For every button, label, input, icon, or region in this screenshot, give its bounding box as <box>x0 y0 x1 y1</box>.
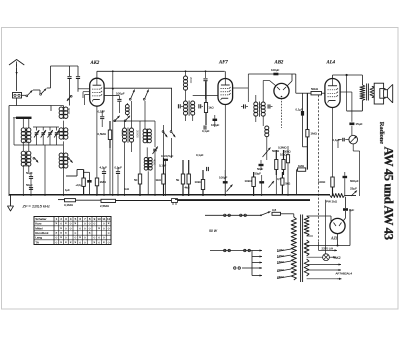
wire L6 down <box>63 141 65 153</box>
svg-text:×: × <box>60 226 62 230</box>
svg-text:○: ○ <box>79 226 81 230</box>
svg-text:Lang: Lang <box>35 236 42 240</box>
svg-text:×: × <box>55 222 57 226</box>
wire x346 down <box>346 75 348 111</box>
tube AF7 pentode <box>218 79 233 105</box>
wire core to coils <box>23 119 29 128</box>
svg-text:○: ○ <box>84 240 86 244</box>
dial lamp <box>323 254 330 261</box>
wire under C9 <box>165 161 167 196</box>
IF coil L13 L14 pair <box>184 101 195 116</box>
svg-text:○: ○ <box>55 236 57 240</box>
dial lamp label <box>322 247 334 251</box>
wire bus B2 <box>175 199 310 201</box>
capacitor C9 flat <box>163 159 168 161</box>
wire AF7 grid left <box>193 95 218 97</box>
svg-text:○: ○ <box>55 240 57 244</box>
svg-text:○: ○ <box>74 236 76 240</box>
antenna coil L3 L4 pair <box>21 151 31 167</box>
capacitor C18 <box>241 104 248 108</box>
wire IF2 leads <box>256 115 263 126</box>
svg-text:AZ1: AZ1 <box>330 236 338 241</box>
capacitor C25 block on x302 <box>301 111 304 116</box>
trimmer capacitor T4 <box>54 127 59 145</box>
svg-text:0,5: 0,5 <box>277 177 281 181</box>
label R7R8 <box>278 146 287 150</box>
trimmer capacitor T2 <box>41 127 46 145</box>
capacitor C23 <box>207 165 209 174</box>
svg-text:240V: 240V <box>277 275 284 279</box>
svg-text:0,1µF: 0,1µF <box>115 165 123 169</box>
wire node bus left <box>9 106 51 197</box>
wire AZ1 bottom lead <box>337 234 339 246</box>
wire trimmer top rail <box>33 126 59 128</box>
wire L9 leads <box>131 101 133 152</box>
svg-text:○: ○ <box>98 236 100 240</box>
svg-text:○: ○ <box>84 236 86 240</box>
label R9 <box>245 179 253 183</box>
padder trimmer C10 <box>153 121 158 196</box>
trimmer capacitor T1 <box>34 127 39 145</box>
label C27 15uF <box>356 122 363 126</box>
svg-text:110V: 110V <box>277 248 284 252</box>
selector tap arrows <box>252 249 262 263</box>
power transformer heater winding 1 <box>304 240 309 256</box>
label row mid <box>161 154 174 158</box>
svg-text:6000: 6000 <box>121 130 125 137</box>
wire HT mid <box>307 235 313 237</box>
resistor R3 <box>181 160 184 196</box>
wire lamp line <box>307 256 336 258</box>
svg-text:AB2: AB2 <box>274 60 284 65</box>
svg-text:0,1/0,5µF: 0,1/0,5µF <box>161 154 174 158</box>
label coil 1000 vertical <box>67 108 71 115</box>
capacitor C5 AK2 grid <box>67 77 71 79</box>
oscillator coil L6 pair <box>59 127 68 139</box>
wire AK2 cathode down <box>96 106 98 196</box>
svg-text:20000: 20000 <box>136 130 140 138</box>
wire grid stop line <box>296 92 311 94</box>
heater arrows row4 <box>307 278 342 280</box>
label C16 100pF <box>211 123 219 127</box>
connector on bus line <box>172 199 178 205</box>
wire AL4 cathode down <box>332 108 334 178</box>
svg-text:50µF: 50µF <box>255 172 262 176</box>
wire AB2 area drops <box>275 170 277 195</box>
tube AK2 octode <box>90 78 104 106</box>
svg-text:AF7AB2AL4: AF7AB2AL4 <box>336 272 353 276</box>
svg-text:15µF: 15µF <box>356 122 363 126</box>
svg-text:0,1µF: 0,1µF <box>296 108 303 112</box>
svg-text:×: × <box>74 222 76 226</box>
svg-text:12: 12 <box>107 217 111 221</box>
svg-text:○: ○ <box>65 226 67 230</box>
tube AL4 pentode <box>325 79 340 108</box>
coil L10 padding pair <box>143 129 151 144</box>
heater stub arrow <box>319 249 338 251</box>
svg-text:0,1µF: 0,1µF <box>159 164 166 168</box>
capacitor C20 100pF block <box>273 73 278 76</box>
antenna coil core bar <box>13 117 32 119</box>
label ZF 128.5 kHz <box>22 204 50 209</box>
resistor R23 <box>281 172 284 195</box>
wire right verticals <box>319 95 326 257</box>
resistor R10 <box>201 170 204 196</box>
svg-text:0,1µF: 0,1µF <box>98 110 106 114</box>
svg-text:AK2: AK2 <box>335 256 341 260</box>
label coil 2000 vertical <box>189 77 193 84</box>
svg-text:220V: 220V <box>277 268 284 272</box>
svg-text:ZF = 128,5 kHz: ZF = 128,5 kHz <box>22 204 50 209</box>
potentiometer P4 tone <box>349 135 358 144</box>
switch S6b band <box>124 116 130 122</box>
wire grid top rail AK2 <box>51 66 79 76</box>
switch blade S7b <box>143 90 148 101</box>
label R3 <box>176 178 180 182</box>
oscillator coil L5 pair <box>59 106 68 119</box>
resistor R22 0.5MOhm <box>108 121 111 195</box>
title AW 45 und AW 43 rotated <box>382 147 396 240</box>
speaker cone <box>384 84 393 102</box>
selector tap arrows lower <box>242 267 262 277</box>
label R13 100Ohm <box>318 180 326 184</box>
heater arrows row3 <box>307 269 341 271</box>
power transformer heater winding 2 <box>304 259 309 276</box>
capacitor C15 <box>203 71 207 99</box>
rectifier tube AZ1 <box>330 218 345 233</box>
svg-text:10: 10 <box>98 217 102 221</box>
tube AB2 duodiode <box>274 83 289 98</box>
wire C6 down <box>77 79 79 92</box>
resistor R2 <box>162 158 165 196</box>
capacitor C22 block <box>259 175 264 196</box>
wire L17 down <box>266 136 268 146</box>
resistor R16 0.1M <box>82 170 85 195</box>
capacitor C24 block <box>223 170 228 196</box>
wire HT top to AZ1 <box>307 216 331 221</box>
tap lines lower <box>277 269 291 279</box>
label 0.5uF <box>277 177 281 181</box>
wire AL4 top to rail <box>333 75 363 79</box>
label PW 2kOhm <box>326 200 338 204</box>
IF coil L12 <box>184 70 188 90</box>
svg-text:1kΩ: 1kΩ <box>156 178 162 182</box>
label 110V <box>277 248 284 252</box>
mains connector pair 3 <box>224 249 231 251</box>
label R10 <box>195 180 203 184</box>
svg-text:50kΩ: 50kΩ <box>284 149 291 153</box>
wire coils to ground bus <box>23 165 29 196</box>
label AF7 <box>218 60 228 65</box>
svg-text:×: × <box>108 222 110 226</box>
svg-text:○: ○ <box>89 226 91 230</box>
svg-text:×: × <box>65 240 67 244</box>
label 100uF C7 <box>116 91 125 95</box>
HT rail y71 <box>97 70 225 72</box>
svg-text:100Ω: 100Ω <box>318 180 326 184</box>
svg-text:50: 50 <box>134 178 138 182</box>
wire x352 chain <box>351 111 353 122</box>
wire S2 up to junction <box>47 66 51 88</box>
ground bus right zigzag PW 2kOhm <box>330 194 356 198</box>
wire AK2 top to HT rail <box>96 71 98 78</box>
svg-text:0,8: 0,8 <box>272 208 277 212</box>
resistor R21 1MOhm horizontal <box>297 168 306 195</box>
svg-text:Rundfunk: Rundfunk <box>35 231 49 235</box>
svg-text:×: × <box>55 231 57 235</box>
svg-text:AL4: AL4 <box>326 60 336 65</box>
svg-text:2000: 2000 <box>189 77 193 84</box>
svg-text:4kΩ: 4kΩ <box>185 186 190 190</box>
wire L10 <box>145 101 147 158</box>
wire AF7 rail junction dot <box>112 70 114 72</box>
ground arrow left <box>8 195 14 211</box>
wire AF7 top <box>205 70 226 78</box>
label C29 600uF <box>350 179 359 183</box>
svg-text:Radione: Radione <box>378 122 385 144</box>
label R5 <box>100 180 107 184</box>
antenna coil L1 L2 pair <box>21 127 31 143</box>
svg-text:×: × <box>60 231 62 235</box>
ground bus <box>9 194 330 196</box>
wire OT primary top <box>361 75 363 85</box>
label R21 1M <box>298 164 304 168</box>
label 0.1uF C8 <box>98 110 106 114</box>
svg-text:×: × <box>60 236 62 240</box>
wire step corner <box>66 170 84 177</box>
capacitor C29 block <box>343 172 348 196</box>
wire S1 to S2 <box>33 90 40 94</box>
label C24 <box>219 176 227 180</box>
svg-text:○: ○ <box>108 240 110 244</box>
wire antenna jack down <box>16 98 18 106</box>
wire C29 link <box>337 180 345 182</box>
resistor R15 2.5MOhm <box>101 199 310 202</box>
wire AF7 anode right <box>233 88 249 102</box>
switch table gridlines and entries <box>34 217 111 245</box>
power transformer primary winding <box>291 217 296 280</box>
label P1 50k <box>272 149 287 156</box>
svg-text:1kΩ: 1kΩ <box>124 187 129 191</box>
heater arrows row2 <box>307 263 341 265</box>
wire AL4 anode right <box>340 92 352 111</box>
svg-text:600µF: 600µF <box>350 179 359 183</box>
label C11 4.5uF <box>100 165 108 169</box>
label R1 <box>134 178 138 182</box>
fuse 0.8A <box>272 208 281 215</box>
resistor R20 50k <box>286 146 289 196</box>
resistor R9 10k <box>252 172 255 196</box>
svg-text:○: ○ <box>70 222 72 226</box>
wire osc section top <box>63 106 65 108</box>
svg-text:AF7: AF7 <box>218 60 228 65</box>
wire trimmer bus down <box>44 145 46 196</box>
svg-text:PW 2kΩ: PW 2kΩ <box>326 200 338 204</box>
capacitor C8 0.1uF <box>100 110 104 127</box>
label 0.1uF under C9 <box>159 164 166 168</box>
label 4kOhm <box>185 186 190 190</box>
svg-text:2370 L/A: 2370 L/A <box>322 247 334 251</box>
svg-text:50µF: 50µF <box>26 183 33 187</box>
svg-text:×: × <box>103 240 105 244</box>
capacitor C7 100uF <box>117 96 121 113</box>
label C20 100uF <box>271 68 279 72</box>
wire AK2 anode right <box>104 88 172 131</box>
mains connector pair 4 <box>244 249 251 251</box>
wire AF7 cathode <box>224 105 226 197</box>
wire x302 vertical <box>303 93 308 147</box>
title Radione rotated <box>378 122 385 144</box>
svg-text:Mittel: Mittel <box>35 226 43 230</box>
svg-text:125V: 125V <box>277 254 284 258</box>
svg-text:4,5µF: 4,5µF <box>100 165 108 169</box>
label coil 20000 vertical <box>136 130 140 138</box>
capacitor C13 IF <box>178 101 183 108</box>
speaker frame <box>374 83 383 104</box>
label C25 0.1uF <box>296 108 303 112</box>
potentiometer P1 volume <box>263 146 271 160</box>
label 50uF left <box>26 171 33 175</box>
svg-text:Schalter: Schalter <box>35 217 46 221</box>
capacitor C27 15uF block <box>349 123 354 126</box>
wire antenna to switch S1 <box>22 94 27 96</box>
wire secondary links <box>372 87 374 98</box>
switch blade S7a <box>129 90 134 101</box>
switch S3 band <box>33 157 38 162</box>
label 0.5uF left <box>26 183 33 187</box>
label AB2 <box>274 60 284 65</box>
capacitor C34 block <box>84 172 92 195</box>
node dot AL4 rail <box>346 74 348 76</box>
svg-text:50µF: 50µF <box>26 171 33 175</box>
wire IF1 bottoms <box>186 114 193 121</box>
oscillator coil L7 pair <box>59 153 68 169</box>
wire L12 to L13 <box>185 89 187 101</box>
heater arrows row1 <box>307 209 350 247</box>
svg-text:○: ○ <box>93 222 95 226</box>
wire fuse to transformer <box>281 214 294 217</box>
svg-text:2MΩ: 2MΩ <box>100 180 107 184</box>
svg-text:0,1µF: 0,1µF <box>202 129 210 133</box>
wire x318 to lamp area <box>318 242 320 250</box>
osc coupling coil small <box>125 103 129 116</box>
svg-text:○: ○ <box>108 226 110 230</box>
oscillator coil L8 L9 pair <box>123 128 134 143</box>
switch position table frame <box>34 217 111 245</box>
svg-text:100µF: 100µF <box>116 91 125 95</box>
power transformer HT secondary <box>304 216 309 236</box>
label 50uF right <box>255 172 262 176</box>
label AK2 <box>90 61 100 66</box>
label C28 0.1uF <box>333 138 340 142</box>
label lamp AK2 <box>335 256 341 260</box>
capacitor C32 left <box>29 172 33 196</box>
wire AK2 grid lines left <box>78 89 90 105</box>
wire AB2 feed line <box>248 74 295 88</box>
wire P4 down <box>353 144 359 196</box>
resistor R13 100Ohm <box>331 177 334 196</box>
svg-text:×: × <box>93 240 95 244</box>
svg-text:×: × <box>65 231 67 235</box>
svg-text:×: × <box>74 240 76 244</box>
svg-text:○: ○ <box>103 236 105 240</box>
voltage selector vertical <box>251 251 253 269</box>
label coil 6000 vertical <box>121 130 125 137</box>
svg-text:1kΩ: 1kΩ <box>209 106 214 110</box>
svg-text:○: ○ <box>103 226 105 230</box>
capacitor C19 <box>268 104 272 108</box>
svg-text:0,1µF: 0,1µF <box>333 138 340 142</box>
label AZ1 <box>330 236 338 241</box>
svg-text:×: × <box>89 231 91 235</box>
label C30 25uF <box>350 187 357 191</box>
switch S2 wave band <box>40 89 47 96</box>
output transformer primary <box>360 85 365 101</box>
svg-text:50µF: 50µF <box>257 167 264 171</box>
wire top rail x113 to x155 <box>113 120 155 122</box>
svg-text:○: ○ <box>84 226 86 230</box>
capacitor C11 50pF <box>102 168 106 196</box>
svg-text:5k: 5k <box>176 178 180 182</box>
svg-text:○: ○ <box>98 240 100 244</box>
svg-text:0,1µF: 0,1µF <box>196 153 204 157</box>
resistor R14 horizontal <box>65 199 102 202</box>
power transformer core <box>301 215 303 283</box>
capacitor C12 <box>116 167 120 196</box>
capacitor C6 AK2 grid <box>76 77 80 79</box>
switch S5 below C6 <box>67 95 72 101</box>
wire L7 to bus <box>63 167 65 196</box>
wire R12 to AL4 <box>322 92 326 94</box>
wire AB2 to AL4 line <box>295 74 297 93</box>
mains connector pair 5 <box>234 267 241 269</box>
svg-text:11: 11 <box>102 217 105 221</box>
wire AZ1 top right <box>344 197 346 221</box>
svg-text:100µF: 100µF <box>211 123 219 127</box>
label 150V <box>277 260 284 264</box>
svg-text:○: ○ <box>108 231 110 235</box>
svg-text:50 W: 50 W <box>209 229 218 233</box>
potentiometer P3 <box>227 185 233 192</box>
capacitor C14 IF <box>199 104 203 108</box>
wire S7 drop <box>171 138 173 158</box>
label R14 <box>64 203 74 207</box>
wire below L1 L2 <box>23 142 29 152</box>
wire C27 to pot <box>352 126 353 136</box>
capacitor C17 <box>202 115 210 133</box>
svg-text:25µF: 25µF <box>350 187 357 191</box>
svg-text:○: ○ <box>103 222 105 226</box>
capacitor C31 4uF <box>343 208 354 212</box>
label 10kOhm R6 <box>209 106 214 110</box>
svg-text:3000: 3000 <box>258 103 262 110</box>
label R20 50kOhm <box>284 149 291 153</box>
label R11 1MOhm <box>311 132 318 136</box>
coil L17 diode <box>265 126 269 137</box>
resistor R7 <box>275 150 278 175</box>
wire x325 to lamp <box>325 254 328 257</box>
label coil 500 vertical <box>258 103 262 110</box>
capacitor C16 100pF <box>213 115 218 127</box>
mains connector pair 2 <box>240 214 247 216</box>
switch S8b osc <box>170 131 175 138</box>
resistor R6 screen <box>204 81 207 125</box>
switch S1 antenna select <box>26 90 33 97</box>
wire L11 down <box>147 171 149 195</box>
resistor R5 2MOhm <box>95 178 98 195</box>
label AF7AB2AL4 <box>336 272 353 276</box>
svg-text:10kΩ: 10kΩ <box>195 180 203 184</box>
